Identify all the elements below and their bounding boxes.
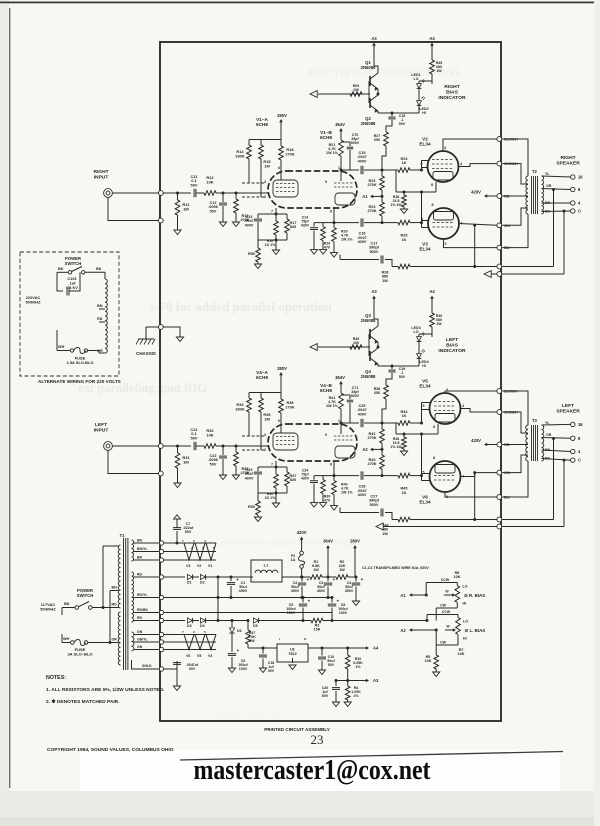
arrow A4 [430, 43, 434, 46]
arrow 280V [279, 119, 283, 122]
V3 inner box [434, 212, 454, 221]
wire BK to switch [62, 607, 75, 609]
svg-text:470: 470 [324, 499, 330, 503]
resistor R5 10K [434, 655, 439, 669]
svg-text:R50: R50 [248, 505, 255, 509]
svg-text:2N5088: 2N5088 [361, 318, 376, 323]
V2 cathode wire [437, 424, 439, 434]
svg-text:INDICATOR: INDICATOR [438, 95, 466, 101]
resistor R31 1M [175, 453, 180, 468]
feedthrough node RD1 [159, 575, 163, 579]
svg-text:+: + [337, 600, 340, 605]
NFB tap wire 1 [553, 190, 555, 267]
svg-text:EL34: EL34 [419, 500, 431, 505]
edge node BU/WH [497, 137, 502, 142]
alt C101 wire [69, 272, 80, 291]
wire C14 branch [314, 222, 334, 224]
resistor R25 1K [398, 220, 410, 225]
wire BU to OPT [502, 461, 528, 497]
wire C15 to grid node [364, 169, 398, 171]
capacitor C1 50uf [230, 577, 232, 581]
resistor R35 1M [260, 393, 262, 399]
svg-text:280V: 280V [277, 113, 287, 118]
resistor R41 4.7K [339, 393, 344, 409]
svg-text:50V: 50V [189, 667, 196, 671]
svg-text:6CH8: 6CH8 [320, 388, 332, 393]
svg-text:420V: 420V [471, 438, 481, 443]
junction splitter top [381, 422, 384, 425]
svg-text:LEFT: LEFT [95, 422, 107, 428]
wire WH to fuse [62, 642, 71, 644]
ground below R13 [232, 475, 239, 480]
svg-text:HI: HI [463, 602, 467, 606]
junction plate B [340, 422, 343, 425]
edge node NFB2 [497, 524, 502, 529]
ground cathode A [254, 517, 261, 522]
capacitor C14 75pf [313, 223, 315, 227]
svg-text:D5: D5 [253, 624, 258, 628]
IC ground pin [292, 658, 294, 663]
V2 plate wire [445, 391, 497, 393]
heater B wire inside [164, 641, 216, 643]
wire jack to board [112, 445, 158, 447]
resistor R47 2.0K 3W [247, 621, 249, 631]
speaker terminal 16 [571, 175, 575, 179]
resistor R48 15.8 1% [403, 434, 405, 437]
svg-text:SHLD: SHLD [142, 664, 152, 668]
arrow A1 pot [409, 593, 412, 597]
ground below R20 [330, 253, 337, 258]
NFB tap wire 1 [553, 439, 555, 520]
heater connectors V3 V2 V1 [184, 543, 194, 560]
resistor R15 1M [260, 140, 262, 146]
svg-text:mastercaster1@cox.net: mastercaster1@cox.net [194, 754, 431, 786]
svg-text:C: C [578, 209, 581, 214]
svg-text:A4: A4 [429, 289, 435, 294]
diode D1 [187, 574, 192, 579]
ground below C14 [310, 250, 317, 255]
edge node GN [497, 223, 502, 228]
svg-text:270K: 270K [285, 151, 295, 156]
svg-text:50/60HZ: 50/60HZ [40, 607, 56, 612]
capacitor C21 0.1 50V [193, 442, 195, 450]
svg-text:A3: A3 [373, 678, 379, 683]
svg-text:ALTERNATE WIRING FOR 220 VOLTS: ALTERNATE WIRING FOR 220 VOLTS [38, 379, 121, 384]
alt node left drop [57, 272, 63, 291]
svg-text:V1: V1 [208, 564, 212, 568]
resistor R23 270K [381, 196, 383, 202]
svg-text:2N5088: 2N5088 [361, 121, 376, 126]
svg-text:RD/YL: RD/YL [137, 593, 148, 597]
junction input node [176, 445, 179, 448]
resistor R36 1K [275, 467, 277, 474]
wire C16 to node [364, 475, 398, 477]
resistor R16 1K [275, 214, 277, 221]
svg-text:BN: BN [137, 539, 143, 543]
heater B wire inside [164, 649, 216, 651]
resistor R28 15.8 1% [403, 192, 405, 195]
svg-text:400V: 400V [245, 223, 254, 227]
ground below C9 [228, 668, 235, 673]
svg-text:L1: L1 [264, 563, 269, 568]
ground below C14 [310, 503, 317, 508]
V3 plate wire [445, 492, 497, 497]
V2 cathode wire [435, 182, 437, 192]
alt wire WH [57, 350, 70, 352]
svg-text:10K: 10K [458, 652, 465, 656]
junction C12 node [222, 445, 225, 448]
svg-text:+: + [333, 578, 336, 583]
wire D5 out [259, 620, 311, 622]
T1 core [123, 538, 125, 670]
ground below R19 [319, 503, 326, 508]
svg-text:4: 4 [204, 539, 206, 543]
resistor R20 4.7K [333, 223, 335, 228]
svg-text:8: 8 [433, 425, 435, 429]
diode D3 [187, 618, 192, 623]
resistor R37 820 [286, 467, 288, 472]
regulator output rail [308, 647, 366, 649]
resistor R2 24K 1W [336, 575, 348, 580]
svg-text:T3: T3 [532, 418, 538, 423]
capacitor C25 .0047 400V [360, 419, 362, 427]
Q2 collector wire [378, 364, 419, 366]
potentiometer R6 10K [455, 586, 460, 603]
svg-text:470: 470 [324, 246, 330, 250]
resistor R12 10K [204, 191, 216, 196]
T1 secondary heater A [132, 540, 134, 561]
alt wire BK right [85, 271, 105, 273]
svg-text:RIGHT: RIGHT [93, 169, 108, 175]
svg-text:D4: D4 [200, 624, 205, 628]
svg-text:HI: HI [422, 364, 426, 368]
svg-text:INDICATOR: INDICATOR [438, 348, 466, 354]
svg-text:Considerably quality reduced d: Considerably quality reduced design [215, 537, 356, 547]
V3 inner box [435, 465, 455, 474]
ground above C7 [174, 515, 181, 519]
resistor R27 650 [384, 132, 389, 146]
svg-text:BK: BK [58, 267, 64, 271]
ground below R11 [174, 483, 181, 488]
ground below R13 [232, 222, 239, 227]
offboard arrow NFB [376, 523, 383, 530]
shield tap SHLD [136, 668, 159, 670]
speaker terminal C [571, 458, 575, 462]
diode D5 [253, 618, 258, 623]
tube inner dashes B [334, 435, 354, 437]
resistor R1 6.8K 1W [310, 575, 322, 580]
wire plate to C15 [341, 422, 359, 424]
feedthrough node input [158, 191, 163, 196]
AC lead bracket top [61, 608, 63, 616]
V2 inner box [435, 414, 455, 423]
offboard arrow emitter [310, 91, 317, 98]
capacitor C26 .0047 [360, 471, 362, 479]
ground below C20 [332, 702, 339, 707]
tube V4 envelope [268, 424, 357, 461]
svg-text:RD/BK: RD/BK [137, 608, 149, 612]
rail end [348, 576, 356, 578]
svg-text:16: 16 [578, 175, 583, 180]
wire RD2 [164, 620, 185, 622]
feedthrough node input [158, 444, 163, 449]
wire C15 to grid node [364, 422, 398, 424]
svg-text:100: 100 [353, 88, 359, 92]
svg-text:C: C [578, 458, 581, 463]
capacitor C5 100uf [302, 598, 304, 603]
ground cathode A2 [272, 250, 279, 255]
link C8 column [331, 619, 333, 621]
svg-text:OR: OR [546, 433, 552, 437]
resistor R11 1M [175, 200, 180, 215]
mid rail extension [328, 597, 332, 599]
chassis feedthrough node [158, 325, 163, 330]
primary tie vertical 2 [109, 591, 111, 643]
wire to V2 grid [410, 422, 422, 424]
svg-text:HI: HI [422, 111, 426, 115]
arrow A3 [372, 296, 376, 299]
heater tap GN [134, 634, 160, 636]
svg-text:270K: 270K [367, 209, 376, 213]
alt fuse F101 [70, 349, 73, 352]
arrow 364V [339, 128, 343, 131]
wire RD to OPT [502, 444, 528, 446]
link C5 column [302, 619, 304, 621]
svg-text:A1: A1 [362, 194, 368, 199]
wire cathode row left [334, 475, 359, 477]
power tube V3 [428, 208, 459, 239]
svg-text:1W: 1W [313, 568, 319, 572]
svg-text:BK: BK [96, 267, 102, 271]
edge node GN/WH [497, 161, 502, 166]
svg-text:400V: 400V [358, 159, 367, 163]
rail R1-R2 [322, 576, 336, 578]
svg-text:1M: 1M [264, 163, 269, 168]
capacitor C8 100uf [331, 598, 333, 603]
svg-text:8: 8 [330, 463, 332, 467]
IC U1 7812 [277, 644, 308, 662]
tube inner grid box B [335, 446, 355, 458]
chassis ground symbol [138, 338, 154, 340]
svg-text:1.4 KV: 1.4 KV [66, 285, 78, 290]
tube plate line A [280, 171, 282, 180]
svg-text:10K: 10K [425, 659, 432, 663]
heater tap BN [134, 542, 160, 544]
feedthrough node input return [158, 471, 163, 476]
svg-text:2: 2 [193, 630, 195, 634]
offboard arrow emitter [310, 344, 317, 351]
svg-text:7: 7 [202, 546, 204, 550]
rail to bias pots [323, 620, 427, 622]
wire jack to board [112, 192, 158, 194]
capacitor C8s .0047uf [164, 668, 177, 670]
svg-text:A2: A2 [400, 628, 406, 633]
power tube V6 [430, 461, 461, 492]
svg-text:450V: 450V [317, 589, 326, 593]
arrow A3 supply [366, 679, 369, 683]
HV tap RD/YL [134, 597, 160, 599]
svg-text:364V: 364V [335, 375, 345, 380]
wire plate to C15 [341, 169, 359, 171]
mid rail wire [164, 597, 328, 599]
capacitor C11 0.1 50V [193, 189, 195, 197]
svg-text:50V: 50V [268, 669, 275, 673]
tube inner grid box A [273, 433, 298, 450]
wire rect2 out [206, 620, 249, 622]
svg-text:3W: 3W [249, 639, 255, 643]
LED LED2 HI [417, 101, 422, 106]
svg-text:BN: BN [137, 556, 143, 560]
wire GN/WH to OPT [502, 412, 528, 433]
svg-text:5: 5 [204, 630, 206, 634]
junction R13 node [235, 192, 238, 195]
PCB assembly border box [160, 42, 501, 721]
grid dashed lead upper [242, 182, 266, 184]
wire L1 out [282, 576, 302, 578]
arrow A3 [372, 43, 376, 46]
V3 inner dashes [433, 222, 455, 224]
svg-text:8: 8 [432, 203, 434, 207]
svg-text:T1: T1 [120, 533, 126, 538]
ground cathode A [254, 264, 261, 269]
junction plate B [340, 169, 343, 172]
capacitor C10 50uf [321, 648, 323, 656]
T1 primary winding upper [118, 545, 120, 608]
alt winding T101 [105, 279, 107, 353]
svg-text:SWITCH: SWITCH [77, 593, 94, 598]
offboard arrow NFB [484, 271, 491, 278]
svg-text:V3: V3 [186, 564, 190, 568]
svg-text:V5: V5 [197, 654, 201, 658]
HV tap RD2 [134, 620, 160, 622]
svg-text:A3: A3 [371, 36, 377, 41]
svg-text:SPEAKER: SPEAKER [556, 160, 580, 166]
wire cathode A [275, 208, 277, 214]
svg-text:LEFT: LEFT [562, 403, 574, 409]
resistor R43 270K [381, 449, 383, 455]
ground below C8s [173, 686, 180, 691]
diode D4 [200, 618, 205, 623]
svg-text:1K: 1K [402, 491, 407, 495]
feedthrough node RDBK [159, 610, 163, 614]
svg-text:50V: 50V [185, 530, 192, 534]
svg-text:1A: 1A [291, 558, 296, 562]
R6 bottom loop [456, 603, 458, 609]
chassis right ground [176, 337, 183, 342]
heater wire inside [164, 551, 216, 553]
resistor R44 1K [398, 421, 410, 426]
feedthrough node heaterB 1 [159, 632, 163, 636]
svg-text:500V: 500V [351, 394, 360, 398]
svg-text:2N5088: 2N5088 [361, 374, 376, 379]
wire D1-D2 [193, 576, 199, 578]
junction cathode R28 [403, 191, 406, 194]
heater wire inside [164, 542, 216, 544]
wire C11 to R12 [196, 445, 204, 447]
edge node NFB [497, 264, 502, 269]
OPT core [531, 425, 533, 461]
arrow A4 [430, 296, 434, 299]
V2 inner dashes [432, 159, 454, 161]
power tube V2 [428, 151, 459, 182]
svg-text:6CH8: 6CH8 [320, 135, 332, 140]
heater tap BN/YL [134, 551, 160, 553]
arrow 364V [339, 381, 343, 384]
HV tap RD/BK [134, 612, 160, 614]
svg-text:LO: LO [463, 585, 468, 589]
ground cathode A2 [272, 503, 279, 508]
svg-text:BN/YL: BN/YL [137, 547, 148, 551]
svg-text:5: 5 [213, 546, 215, 550]
L BIAS top loop [426, 615, 428, 621]
OPT secondary winding [542, 425, 544, 461]
R BIAS pot top loop [425, 583, 427, 596]
ground below R20 [330, 506, 337, 511]
svg-text:1.5A SLO-BLO: 1.5A SLO-BLO [67, 360, 94, 365]
svg-text:RD: RD [97, 317, 103, 321]
svg-text:3: 3 [444, 146, 446, 150]
B+ rail [302, 576, 310, 578]
svg-text:INPUT: INPUT [94, 427, 109, 433]
resistor R4 1.00K [345, 686, 350, 700]
wire C14 branch [314, 475, 334, 477]
svg-text:3: 3 [445, 242, 447, 246]
svg-text:4: 4 [460, 162, 462, 166]
wire GN to OPT [502, 208, 528, 225]
ground below R28 [400, 209, 407, 214]
resistor R45 1K [398, 473, 410, 478]
svg-text:1M: 1M [183, 206, 189, 211]
svg-text:6CH8: 6CH8 [256, 122, 268, 127]
feedthrough node RDYL [159, 595, 163, 599]
input jack J-RIGHT [104, 189, 113, 198]
V3 screen wire [461, 473, 498, 477]
V3 screen wire [459, 224, 497, 226]
ground below R11 [174, 230, 181, 235]
grid dashed lead lower [242, 196, 266, 198]
resistor R18 270K [280, 140, 282, 147]
svg-text:8: 8 [433, 456, 435, 460]
resistor R19 470 [322, 223, 324, 227]
svg-text:1W: 1W [436, 69, 442, 73]
svg-text:100: 100 [353, 341, 359, 345]
svg-text:50V: 50V [210, 462, 217, 466]
svg-text:270K: 270K [367, 436, 376, 440]
svg-text:1K 1%: 1K 1% [265, 243, 277, 247]
V2 inner box [433, 172, 453, 181]
capacitor C17 390pf [340, 259, 379, 261]
svg-text:EL34: EL34 [419, 142, 431, 147]
ground below C12 [219, 475, 226, 480]
svg-text:s-70 for added parallel operat: s-70 for added parallel operation [150, 299, 333, 314]
feedthrough node heaterB 2 [159, 640, 163, 644]
fuse to primary node [88, 642, 110, 644]
R7 wiper [453, 628, 456, 632]
svg-text:8: 8 [431, 183, 433, 187]
svg-text:50V: 50V [191, 435, 198, 440]
feedthrough node heater 3 [159, 558, 163, 562]
junction rectifier 1 [206, 576, 228, 578]
alt wire BK left [57, 271, 68, 273]
junction cathode R28 [403, 433, 406, 436]
edge node NFB [497, 517, 502, 522]
svg-text:GN/YL: GN/YL [137, 638, 149, 642]
capacitor C18 .1 50V [391, 113, 393, 116]
ground below C18s [259, 668, 266, 673]
capacitor C9 100uf [228, 653, 236, 655]
NFB tap wire 2 [563, 211, 565, 274]
svg-text:A1: A1 [400, 593, 406, 598]
